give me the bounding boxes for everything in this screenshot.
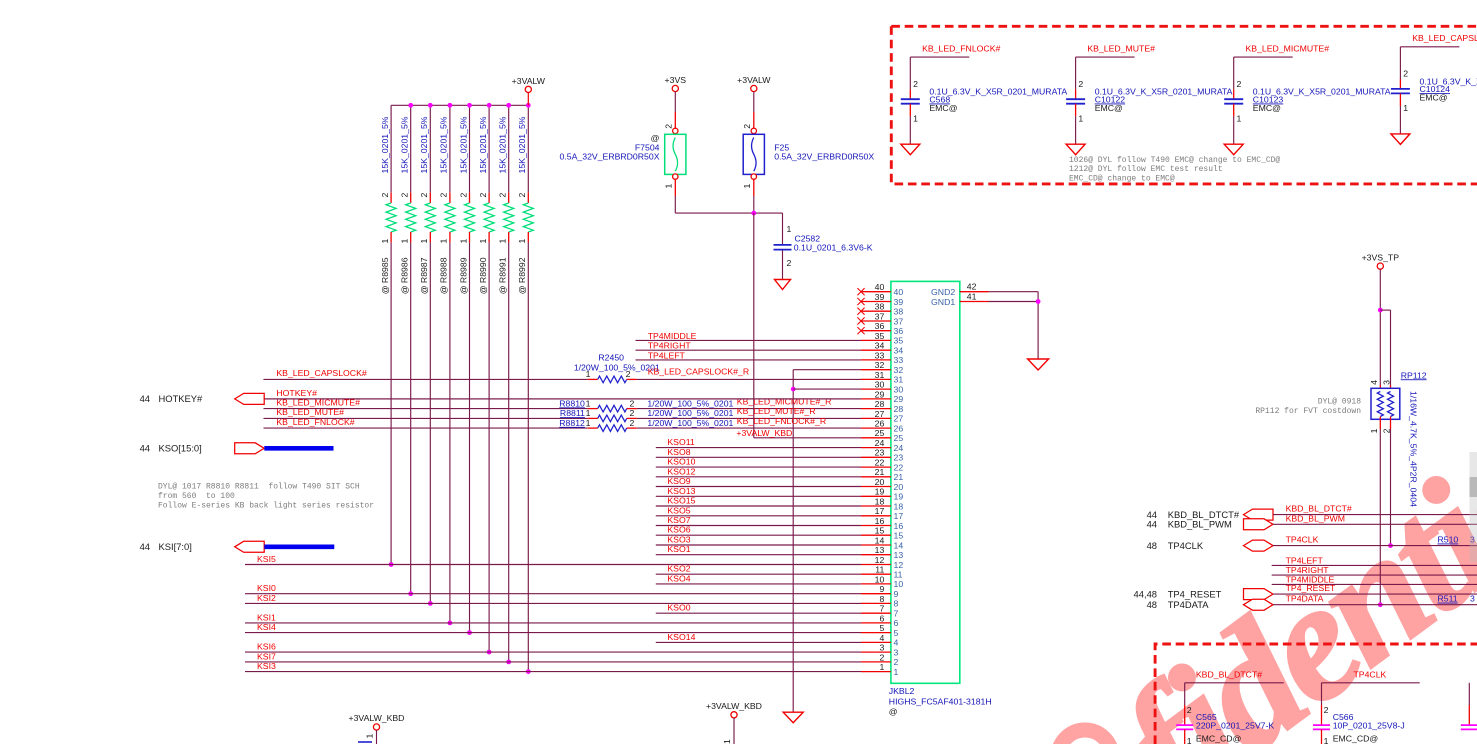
svg-text:1/20W_100_5%_0201: 1/20W_100_5%_0201 [647,408,733,418]
svg-text:1: 1 [742,184,752,189]
svg-text:KB_LED_FNLOCK#: KB_LED_FNLOCK# [922,43,1000,53]
svg-text:4: 4 [1369,380,1379,385]
svg-text:GND1: GND1 [931,297,955,307]
svg-text:KBD_BL_PWM: KBD_BL_PWM [1286,513,1345,523]
svg-text:32: 32 [894,365,904,375]
svg-text:2: 2 [1237,79,1242,89]
svg-text:2: 2 [419,193,429,198]
svg-text:3: 3 [894,647,899,657]
svg-text:36: 36 [875,321,885,331]
svg-text:38: 38 [894,307,904,317]
svg-text:25: 25 [875,428,885,438]
svg-text:40: 40 [875,282,885,292]
svg-text:3: 3 [1382,380,1392,385]
svg-text:KSI6: KSI6 [257,642,276,652]
svg-text:KSI0: KSI0 [257,583,276,593]
svg-text:15K_0201_5%: 15K_0201_5% [419,116,429,173]
svg-text:+3VALW_KBD: +3VALW_KBD [706,701,762,711]
svg-text:31: 31 [875,370,885,380]
svg-text:KB_LED_MUTE#: KB_LED_MUTE# [1087,43,1155,53]
svg-text:17: 17 [875,506,885,516]
svg-text:26: 26 [894,423,904,433]
svg-text:37: 37 [894,316,904,326]
svg-text:1: 1 [1237,114,1242,124]
svg-text:9: 9 [879,584,884,594]
svg-text:39: 39 [894,297,904,307]
svg-text:1: 1 [1403,103,1408,113]
svg-text:14: 14 [894,540,904,550]
svg-text:KBD_BL_DTCT#: KBD_BL_DTCT# [1196,670,1262,680]
svg-text:2: 2 [629,408,634,418]
svg-text:R511: R511 [1438,594,1458,604]
svg-text:1212@ DYL follow EMC test resu: 1212@ DYL follow EMC test result [1069,165,1223,174]
svg-text:+3VS_TP: +3VS_TP [1362,253,1400,263]
svg-text:19: 19 [894,492,904,502]
svg-text:EMC_CD@ change to EMC@: EMC_CD@ change to EMC@ [1069,174,1175,183]
svg-text:2: 2 [787,258,792,268]
svg-text:18: 18 [875,496,885,506]
svg-text:KSO[15:0]: KSO[15:0] [159,443,202,454]
svg-text:1: 1 [458,239,468,244]
svg-text:1: 1 [586,369,591,379]
svg-text:KSI7: KSI7 [257,651,276,661]
svg-text:KSO14: KSO14 [667,632,695,642]
svg-text:11: 11 [875,565,884,575]
svg-text:JKBL2: JKBL2 [889,686,915,696]
svg-text:2: 2 [517,193,527,198]
svg-text:2: 2 [913,79,918,89]
svg-text:@ R8987: @ R8987 [419,257,429,294]
svg-text:27: 27 [875,409,885,419]
svg-text:R8810: R8810 [559,398,585,408]
svg-text:15K_0201_5%: 15K_0201_5% [400,116,410,173]
svg-text:1: 1 [498,239,508,244]
svg-text:1: 1 [380,239,390,244]
svg-text:6: 6 [894,618,899,628]
svg-text:17: 17 [894,511,904,521]
svg-text:15K_0201_5%: 15K_0201_5% [517,116,527,173]
svg-text:8: 8 [894,599,899,609]
svg-text:24: 24 [894,443,904,453]
svg-text:15K_0201_5%: 15K_0201_5% [439,116,449,173]
svg-text:EMC@: EMC@ [1253,103,1281,113]
svg-text:48: 48 [1147,599,1157,610]
svg-text:1: 1 [913,114,918,124]
svg-text:0.1U_0201_6.3V6-K: 0.1U_0201_6.3V6-K [794,242,873,252]
svg-text:34: 34 [894,346,904,356]
svg-text:KSO12: KSO12 [667,466,695,476]
svg-text:12: 12 [894,560,904,570]
svg-text:1: 1 [879,662,884,672]
svg-text:KSI[7:0]: KSI[7:0] [159,541,192,552]
svg-text:29: 29 [875,389,885,399]
svg-text:2: 2 [400,193,410,198]
svg-text:EMC_CD@: EMC_CD@ [1333,734,1379,744]
svg-text:+3VALW_KBD: +3VALW_KBD [349,713,405,723]
svg-text:40: 40 [894,287,904,297]
svg-text:KBD_BL_DTCT#: KBD_BL_DTCT# [1286,504,1352,514]
svg-text:1/16W_4.7K_5%_4P2R_0404: 1/16W_4.7K_5%_4P2R_0404 [1409,391,1419,507]
svg-text:DYL@ 1017 R8810 R8811 follow: DYL@ 1017 R8810 R8811 follow T490 SIT SC… [158,482,360,491]
svg-text:16: 16 [875,516,885,526]
svg-text:KSO4: KSO4 [667,573,690,583]
svg-text:@ R8992: @ R8992 [517,257,527,294]
svg-text:2: 2 [1187,705,1192,715]
svg-text:KB_LED_MUTE#_R: KB_LED_MUTE#_R [737,406,816,416]
svg-text:44,48: 44,48 [1134,588,1157,599]
svg-text:KB_LED_CAPSLOCK#_R: KB_LED_CAPSLOCK#_R [648,367,749,377]
svg-text:@ R8990: @ R8990 [478,257,488,294]
svg-text:10: 10 [875,574,885,584]
svg-text:KB_LED_MUTE#: KB_LED_MUTE# [276,407,344,417]
svg-text:1: 1 [1078,114,1083,124]
svg-text:44: 44 [140,443,150,454]
svg-text:1: 1 [1369,428,1379,433]
svg-text:1: 1 [664,184,674,189]
svg-text:1: 1 [1187,736,1192,744]
svg-text:23: 23 [875,448,885,458]
svg-text:33: 33 [894,355,904,365]
svg-text:3: 3 [1470,594,1475,604]
svg-text:2: 2 [626,369,631,379]
svg-text:TP4LEFT: TP4LEFT [1286,555,1324,565]
svg-text:22: 22 [875,458,885,468]
svg-text:from 560 to 100: from 560 to 100 [158,492,235,501]
svg-text:KSO6: KSO6 [667,525,690,535]
svg-text:22: 22 [894,462,904,472]
svg-text:KSO15: KSO15 [667,496,695,506]
svg-text:5: 5 [894,628,899,638]
svg-text:2: 2 [1403,69,1408,79]
svg-text:41: 41 [967,292,977,302]
svg-text:TP4CLK: TP4CLK [1168,540,1204,551]
svg-text:7: 7 [894,609,899,619]
svg-text:KSO13: KSO13 [667,486,695,496]
svg-text:KB_LED_MICMUTE#: KB_LED_MICMUTE# [1246,43,1330,53]
svg-text:2: 2 [629,418,634,428]
svg-text:13: 13 [875,545,885,555]
svg-text:HOTKEY#: HOTKEY# [276,388,317,398]
svg-text:R2450: R2450 [598,353,624,363]
svg-text:28: 28 [894,404,904,414]
svg-text:DYL@ 0918: DYL@ 0918 [1318,397,1361,406]
svg-text:15K_0201_5%: 15K_0201_5% [458,116,468,173]
svg-text:2: 2 [1382,428,1392,433]
svg-text:TP4CLK: TP4CLK [1354,670,1387,680]
svg-text:35: 35 [894,336,904,346]
svg-text:1: 1 [586,408,591,418]
svg-text:1: 1 [722,739,732,744]
svg-text:1: 1 [586,418,591,428]
svg-text:29: 29 [894,394,904,404]
svg-text:6: 6 [879,613,884,623]
svg-text:2: 2 [380,193,390,198]
svg-text:EMC@: EMC@ [1095,103,1123,113]
svg-text:21: 21 [894,472,904,482]
svg-text:2: 2 [879,652,884,662]
svg-text:TP4_RESET: TP4_RESET [1168,588,1222,599]
svg-text:20: 20 [894,482,904,492]
svg-text:32: 32 [875,360,885,370]
svg-text:30: 30 [894,384,904,394]
svg-text:1: 1 [517,239,527,244]
svg-text:42: 42 [967,282,977,292]
svg-text:2: 2 [629,398,634,408]
svg-text:13: 13 [894,550,904,560]
svg-text:1: 1 [894,667,899,677]
svg-text:37: 37 [875,311,885,321]
svg-text:1: 1 [400,239,410,244]
svg-text:KSO2: KSO2 [667,564,690,574]
svg-text:TP4RIGHT: TP4RIGHT [648,341,692,351]
svg-text:KSO8: KSO8 [667,447,690,457]
svg-text:KSO9: KSO9 [667,476,690,486]
svg-text:HOTKEY#: HOTKEY# [159,393,204,404]
svg-text:TP4DATA: TP4DATA [1286,594,1324,604]
svg-text:KB_LED_CAPSLOCK#: KB_LED_CAPSLOCK# [1412,33,1477,43]
svg-text:31: 31 [894,375,904,385]
svg-text:KSO10: KSO10 [667,457,695,467]
svg-text:KSI5: KSI5 [257,554,276,564]
svg-text:2: 2 [664,124,674,129]
svg-text:@ R8991: @ R8991 [498,257,508,294]
svg-text:R8812: R8812 [559,418,585,428]
svg-text:2: 2 [1324,705,1329,715]
svg-text:2: 2 [458,193,468,198]
svg-text:0.5A_32V_ERBRD0R50X: 0.5A_32V_ERBRD0R50X [774,152,874,162]
svg-text:KSI1: KSI1 [257,612,276,622]
svg-text:TP4CLK: TP4CLK [1286,535,1319,545]
svg-text:1: 1 [365,734,375,739]
svg-text:36: 36 [894,326,904,336]
svg-text:34: 34 [875,341,885,351]
svg-text:GND2: GND2 [931,287,955,297]
svg-text:EMC@: EMC@ [929,103,957,113]
svg-text:27: 27 [894,414,904,424]
svg-text:@: @ [889,707,898,717]
svg-text:KB_LED_FNLOCK#_R: KB_LED_FNLOCK#_R [737,416,826,426]
svg-text:KSI3: KSI3 [257,661,276,671]
svg-text:RP112: RP112 [1401,370,1427,380]
svg-text:15: 15 [875,526,885,536]
svg-text:KSO5: KSO5 [667,505,690,515]
svg-text:1: 1 [419,239,429,244]
svg-text:44: 44 [140,541,150,552]
svg-text:Follow E-series KB back light: Follow E-series KB back light series res… [158,501,374,510]
svg-text:@ R8986: @ R8986 [400,257,410,294]
svg-text:RP112 for FVT costdown: RP112 for FVT costdown [1255,407,1361,416]
svg-text:KSO0: KSO0 [667,603,690,613]
svg-text:18: 18 [894,501,904,511]
svg-text:0.5A_32V_ERBRD0R50X: 0.5A_32V_ERBRD0R50X [560,152,660,162]
svg-text:28: 28 [875,399,885,409]
svg-text:220P_0201_25V7-K: 220P_0201_25V7-K [1196,720,1274,730]
svg-text:7: 7 [879,604,884,614]
svg-text:KSO3: KSO3 [667,535,690,545]
svg-text:44: 44 [1147,519,1157,530]
svg-text:33: 33 [875,350,885,360]
svg-text:1: 1 [1324,736,1329,744]
svg-text:@ R8985: @ R8985 [380,257,390,294]
svg-text:2: 2 [894,657,899,667]
svg-text:1: 1 [439,239,449,244]
svg-text:16: 16 [894,521,904,531]
svg-text:23: 23 [894,453,904,463]
svg-text:1/20W_100_5%_0201: 1/20W_100_5%_0201 [647,398,733,408]
svg-text:15K_0201_5%: 15K_0201_5% [380,116,390,173]
svg-text:2: 2 [498,193,508,198]
svg-text:11: 11 [894,570,903,580]
svg-text:10: 10 [894,579,904,589]
svg-text:+3VALW: +3VALW [512,76,546,86]
svg-text:KB_LED_MICMUTE#_R: KB_LED_MICMUTE#_R [737,396,832,406]
svg-text:12: 12 [875,555,885,565]
svg-text:24: 24 [875,438,885,448]
svg-text:R510: R510 [1438,535,1459,545]
svg-text:KSO7: KSO7 [667,515,690,525]
svg-text:EMC_CD@: EMC_CD@ [1196,734,1242,744]
svg-text:30: 30 [875,380,885,390]
svg-text:2: 2 [439,193,449,198]
svg-text:1026@ DYL follow T490 EMC@ cha: 1026@ DYL follow T490 EMC@ change to EMC… [1069,156,1280,165]
svg-text:15K_0201_5%: 15K_0201_5% [478,116,488,173]
svg-text:TP4MIDDLE: TP4MIDDLE [1286,574,1335,584]
svg-text:HIGHS_FC5AF401-3181H: HIGHS_FC5AF401-3181H [889,696,992,706]
svg-text:+3VALW_KBD: +3VALW_KBD [736,428,792,438]
svg-text:10P_0201_25V8-J: 10P_0201_25V8-J [1333,720,1405,730]
svg-text:2: 2 [478,193,488,198]
svg-text:19: 19 [875,487,885,497]
svg-text:+3VS: +3VS [665,75,687,85]
svg-text:KB_LED_FNLOCK#: KB_LED_FNLOCK# [276,417,354,427]
svg-text:25: 25 [894,433,904,443]
svg-text:KSO11: KSO11 [667,437,695,447]
svg-text:1: 1 [586,398,591,408]
svg-text:38: 38 [875,302,885,312]
svg-text:2: 2 [742,124,752,129]
svg-text:+3VALW: +3VALW [737,75,771,85]
svg-text:4: 4 [879,633,884,643]
svg-text:@ R8989: @ R8989 [458,257,468,294]
svg-text:15: 15 [894,531,904,541]
svg-text:35: 35 [875,331,885,341]
svg-text:KB_LED_CAPSLOCK#: KB_LED_CAPSLOCK# [276,368,366,378]
svg-text:TP4MIDDLE: TP4MIDDLE [648,331,697,341]
svg-text:TP4LEFT: TP4LEFT [648,350,686,360]
svg-text:TP4DATA: TP4DATA [1168,599,1210,610]
svg-text:1: 1 [787,224,792,234]
svg-text:15K_0201_5%: 15K_0201_5% [498,116,508,173]
svg-text:8: 8 [879,594,884,604]
svg-text:KSO1: KSO1 [667,544,690,554]
svg-text:1: 1 [478,239,488,244]
svg-text:1/20W_100_5%_0201: 1/20W_100_5%_0201 [647,418,733,428]
svg-text:14: 14 [875,535,885,545]
svg-text:@ R8988: @ R8988 [439,257,449,294]
svg-text:4: 4 [894,638,899,648]
svg-text:KSI4: KSI4 [257,622,276,632]
svg-text:21: 21 [875,467,885,477]
svg-text:9: 9 [894,589,899,599]
svg-text:2: 2 [1078,79,1083,89]
svg-text:39: 39 [875,292,885,302]
svg-text:20: 20 [875,477,885,487]
svg-text:KSI2: KSI2 [257,593,276,603]
svg-text:5: 5 [879,623,884,633]
svg-text:KBD_BL_PWM: KBD_BL_PWM [1168,519,1232,530]
svg-text:3: 3 [879,643,884,653]
svg-text:48: 48 [1147,540,1157,551]
svg-text:26: 26 [875,419,885,429]
svg-text:44: 44 [140,393,150,404]
svg-text:EMC@: EMC@ [1420,93,1448,103]
svg-text:R8811: R8811 [560,408,585,418]
